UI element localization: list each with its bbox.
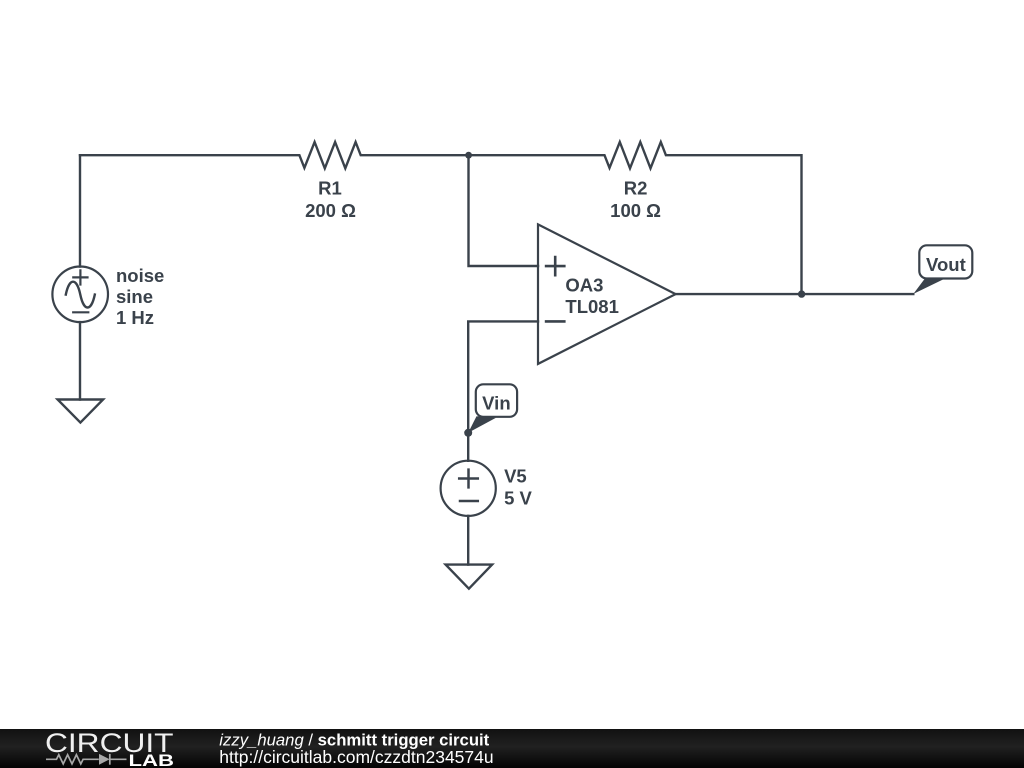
svg-text:sine: sine <box>116 286 153 307</box>
svg-text:R1: R1 <box>318 178 342 199</box>
svg-text:noise: noise <box>116 265 164 286</box>
svg-text:Vin: Vin <box>482 393 510 414</box>
svg-text:TL081: TL081 <box>565 296 618 317</box>
svg-text:OA3: OA3 <box>565 275 603 296</box>
svg-text:200 Ω: 200 Ω <box>305 200 356 221</box>
svg-text:R2: R2 <box>624 178 648 199</box>
svg-text:1 Hz: 1 Hz <box>116 307 154 328</box>
svg-text:V5: V5 <box>504 465 527 486</box>
svg-text:100 Ω: 100 Ω <box>610 200 661 221</box>
svg-text:Vout: Vout <box>926 254 966 275</box>
svg-text:LAB: LAB <box>129 752 175 768</box>
svg-text:5 V: 5 V <box>504 488 532 509</box>
svg-text:http://circuitlab.com/czzdtn23: http://circuitlab.com/czzdtn234574u <box>219 747 493 767</box>
